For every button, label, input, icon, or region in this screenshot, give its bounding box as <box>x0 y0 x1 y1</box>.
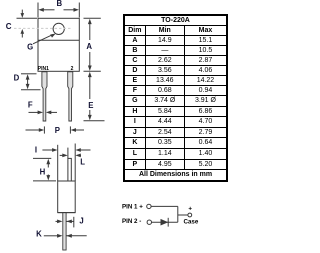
svg-text:P: P <box>55 126 60 135</box>
svg-text:PIN1: PIN1 <box>38 66 49 72</box>
svg-text:2: 2 <box>71 66 74 72</box>
svg-text:D: D <box>14 73 20 82</box>
svg-text:L: L <box>80 157 85 166</box>
svg-text:B: B <box>56 0 62 8</box>
svg-text:I: I <box>35 145 37 154</box>
svg-text:E: E <box>88 101 93 110</box>
svg-text:PIN 2 -: PIN 2 - <box>122 218 141 225</box>
svg-text:H: H <box>40 168 46 177</box>
svg-text:PIN 1 +: PIN 1 + <box>122 203 143 210</box>
svg-text:C: C <box>6 22 12 31</box>
svg-text:F: F <box>28 101 33 110</box>
svg-text:G: G <box>27 42 33 51</box>
svg-text:A: A <box>86 42 92 51</box>
svg-text:+: + <box>188 205 192 212</box>
svg-text:Case: Case <box>184 218 199 225</box>
svg-text:K: K <box>36 229 42 238</box>
svg-text:J: J <box>79 216 83 225</box>
